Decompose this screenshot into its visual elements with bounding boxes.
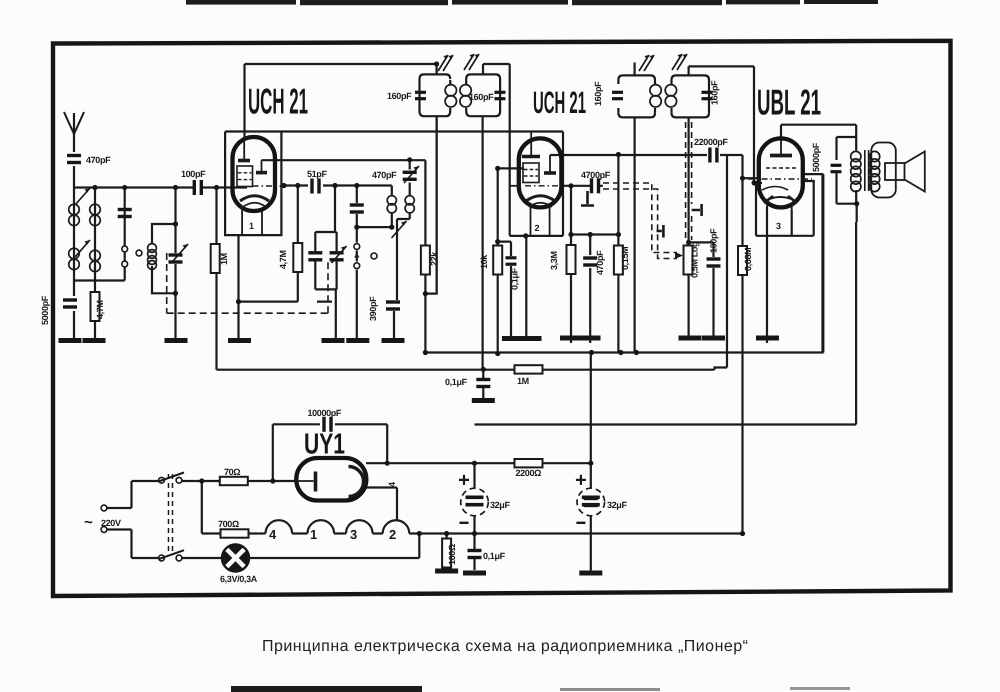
- svg-text:3: 3: [776, 221, 781, 231]
- svg-text:4,7M: 4,7M: [278, 250, 288, 269]
- svg-text:32μF: 32μF: [607, 500, 627, 510]
- svg-text:100pF: 100pF: [181, 169, 206, 179]
- svg-text:160pF: 160pF: [469, 92, 494, 102]
- svg-text:3: 3: [350, 527, 357, 542]
- svg-text:10000pF: 10000pF: [308, 408, 342, 418]
- svg-text:UCH 21: UCH 21: [248, 81, 308, 122]
- svg-text:2: 2: [535, 223, 540, 233]
- svg-text:160pF: 160pF: [593, 81, 603, 106]
- svg-text:5000pF: 5000pF: [40, 295, 50, 325]
- svg-text:~: ~: [84, 514, 93, 531]
- svg-text:Принципна електрическа схема н: Принципна електрическа схема на радиопри…: [262, 638, 748, 655]
- svg-text:10k: 10k: [479, 254, 489, 269]
- svg-text:470pF: 470pF: [86, 155, 111, 165]
- svg-text:700Ω: 700Ω: [218, 519, 239, 529]
- svg-text:160pF: 160pF: [710, 80, 720, 105]
- svg-text:32μF: 32μF: [490, 500, 510, 510]
- svg-text:70Ω: 70Ω: [224, 467, 240, 477]
- svg-text:3,3M: 3,3M: [549, 251, 559, 270]
- svg-text:51pF: 51pF: [307, 169, 327, 179]
- svg-text:UCH 21: UCH 21: [533, 85, 586, 120]
- svg-text:100Ω: 100Ω: [447, 544, 457, 565]
- svg-text:0,15M: 0,15M: [620, 247, 630, 270]
- svg-text:6,3V/0,3A: 6,3V/0,3A: [220, 574, 258, 584]
- svg-text:0,1μF: 0,1μF: [445, 377, 468, 387]
- svg-text:100pF: 100pF: [709, 228, 719, 253]
- svg-text:UBL 21: UBL 21: [757, 82, 821, 123]
- svg-text:220V: 220V: [101, 518, 121, 528]
- svg-text:1M: 1M: [219, 253, 229, 265]
- svg-text:390pF: 390pF: [368, 296, 378, 321]
- svg-text:5000pF: 5000pF: [811, 142, 821, 172]
- svg-text:4: 4: [269, 527, 277, 542]
- svg-text:0,1μF: 0,1μF: [483, 551, 506, 561]
- svg-text:22k: 22k: [429, 251, 439, 266]
- svg-text:1: 1: [310, 527, 317, 542]
- svg-text:22000pF: 22000pF: [694, 137, 728, 147]
- svg-text:470pF: 470pF: [372, 170, 397, 180]
- svg-text:2200Ω: 2200Ω: [516, 468, 542, 478]
- svg-text:1M: 1M: [517, 376, 529, 386]
- svg-text:2: 2: [389, 527, 396, 542]
- svg-text:4,7M: 4,7M: [95, 300, 105, 319]
- svg-text:0,68M: 0,68M: [743, 248, 753, 271]
- svg-text:UY1: UY1: [304, 429, 345, 461]
- svg-text:470pF: 470pF: [595, 250, 605, 275]
- svg-text:0,5M Log: 0,5M Log: [690, 242, 700, 278]
- svg-text:4700pF: 4700pF: [581, 170, 611, 180]
- svg-text:0,1μF: 0,1μF: [510, 267, 520, 290]
- svg-text:4: 4: [387, 482, 397, 487]
- svg-text:160pF: 160pF: [387, 91, 412, 101]
- svg-text:1: 1: [249, 221, 254, 231]
